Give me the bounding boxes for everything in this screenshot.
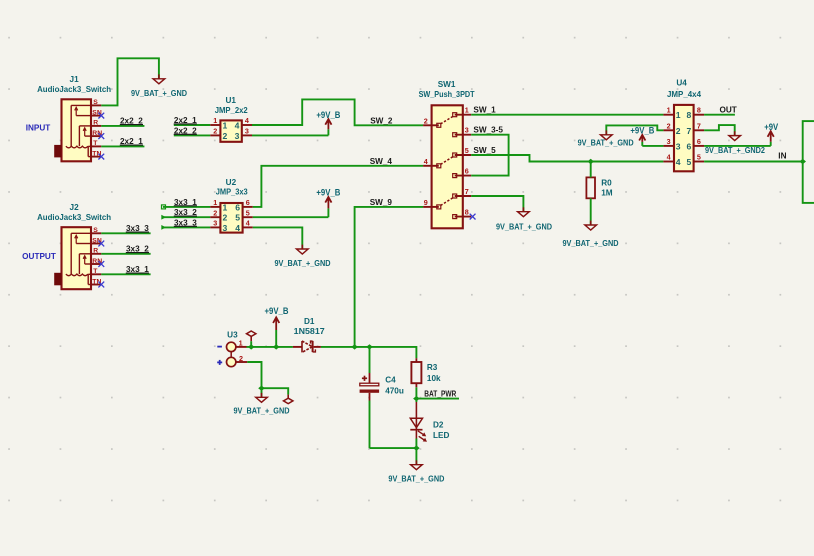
power +9V_B at U1 [316, 110, 340, 135]
no-connect J1 RN [98, 133, 104, 139]
svg-text:2: 2 [213, 208, 217, 217]
no-connect J2 TN [98, 282, 104, 288]
svg-text:R: R [93, 248, 98, 255]
wire ground node down [261, 388, 263, 397]
J2 reference label [70, 203, 80, 212]
no-connect J2 SN [98, 241, 104, 247]
svg-text:J2: J2 [70, 203, 80, 212]
svg-text:9V_BAT_+_GND: 9V_BAT_+_GND [275, 259, 331, 268]
svg-text:1: 1 [223, 121, 228, 131]
svg-text:1: 1 [213, 116, 217, 125]
svg-text:10k: 10k [427, 374, 441, 383]
label OUT [720, 105, 737, 114]
svg-text:SW_3-5: SW_3-5 [473, 126, 503, 135]
svg-text:6: 6 [235, 202, 240, 212]
svg-text:JMP_3x3: JMP_3x3 [216, 188, 248, 197]
svg-text:SW_4: SW_4 [370, 157, 393, 166]
jumper U2 JMP_3x3 [210, 198, 253, 233]
svg-text:3: 3 [223, 223, 228, 233]
wire SW_9 vertical from SW1 pin9 to D1 node [355, 207, 424, 347]
wire R0 top [590, 162, 592, 178]
wire U3 pin2 to ground node [247, 362, 261, 388]
junction at U3 pin1 [248, 344, 255, 349]
label SW_1 [473, 105, 496, 114]
svg-text:U2: U2 [226, 178, 237, 187]
svg-text:5: 5 [235, 213, 240, 223]
svg-text:+9V_B: +9V_B [265, 306, 289, 316]
capacitor C4 470u [360, 347, 380, 448]
connector J1 AudioJack3_Switch [54, 99, 102, 161]
svg-text:2: 2 [239, 354, 243, 363]
wire J1.S to ground [101, 58, 159, 105]
hierarchical sheet at right edge [803, 121, 814, 203]
svg-text:U4: U4 [676, 79, 687, 88]
label 3x3_3 at J2 [126, 224, 149, 233]
label SW_4 [370, 157, 393, 166]
flag diamond at U3 pin1 [247, 331, 256, 347]
U2 value JMP_3x3 [216, 188, 248, 197]
diode D1 1N5817 schottky [293, 341, 321, 353]
U3 reference label [227, 330, 238, 339]
svg-text:1N5817: 1N5817 [294, 327, 325, 336]
switch SW1 SW_Push_3PDT [423, 105, 471, 228]
wire LED bottom to ground [415, 448, 417, 465]
wire SW1 pin3 to pin6 net SW_3-5 [471, 135, 508, 176]
svg-text:9V_BAT_+_GND: 9V_BAT_+_GND [496, 222, 552, 231]
battery connector U3 [227, 339, 248, 367]
jumper U4 JMP_4x4 [663, 105, 704, 171]
wire SW1 pin5 to U4 pin4 net SW_5 [471, 155, 663, 162]
label SW_9 [370, 198, 393, 207]
LED D2 [410, 399, 427, 449]
J2 value AudioJack3_Switch [37, 213, 111, 222]
svg-text:BAT_PWR: BAT_PWR [424, 390, 456, 399]
svg-text:SW_Push_3PDT: SW_Push_3PDT [419, 90, 475, 99]
wire SW1 pin1 to U4 pin1 net SW_1 [471, 114, 663, 116]
svg-text:6: 6 [465, 167, 469, 176]
ground 9V_BAT_+_GND at U3 [234, 393, 290, 416]
svg-text:2: 2 [223, 213, 228, 223]
svg-text:J1: J1 [70, 75, 80, 84]
label 3x3_1 at J2 [126, 265, 149, 274]
svg-text:1: 1 [667, 106, 671, 115]
label 2x2_2 at U1 [174, 126, 197, 135]
svg-text:5: 5 [687, 157, 692, 167]
svg-text:S: S [93, 99, 98, 106]
wire J2.S net 3x3_3 [101, 232, 150, 234]
svg-text:6: 6 [687, 141, 692, 151]
svg-text:SW_2: SW_2 [370, 116, 393, 125]
svg-text:SW_9: SW_9 [370, 198, 393, 207]
U1 reference label [225, 96, 236, 105]
no-connect J1 SN [98, 113, 104, 119]
svg-text:3: 3 [667, 137, 671, 146]
svg-text:R3: R3 [427, 363, 438, 372]
label SW_3-5 [473, 126, 503, 135]
svg-text:IN: IN [778, 152, 786, 161]
OUTPUT text [22, 252, 56, 261]
D1 reference label [304, 317, 315, 326]
jumper U1 JMP_2x2 [210, 116, 252, 142]
wire U4 pin7 to ground [704, 125, 735, 136]
svg-text:9V_BAT_+_GND: 9V_BAT_+_GND [234, 406, 290, 415]
label SW_5 [473, 146, 496, 155]
svg-text:4: 4 [424, 157, 428, 166]
wire U4 pin5 net IN to sheet [704, 161, 803, 163]
svg-text:SW_5: SW_5 [473, 146, 496, 155]
wire U1 pin4 to SW1 pin2 net SW_2 [252, 99, 423, 125]
wire R3 bottom to BAT_PWR node [415, 387, 417, 398]
label 2x2_1 at J1 [120, 137, 143, 146]
svg-text:4: 4 [676, 157, 681, 167]
wire U4 pin3 to +9V_B [642, 145, 663, 147]
U4 value JMP_4x4 [667, 90, 701, 99]
svg-text:3: 3 [465, 126, 469, 135]
svg-text:5: 5 [697, 153, 701, 162]
no-connect J1 TN [98, 154, 104, 160]
wire U2 pin2 net 3x3_2 [161, 215, 210, 220]
junction at C4 branch [366, 344, 373, 349]
svg-text:8: 8 [697, 106, 701, 115]
svg-text:8: 8 [687, 110, 692, 120]
U2 reference label [226, 178, 237, 187]
wire U1 pin3 to +9V_B [252, 134, 328, 136]
svg-text:2: 2 [223, 131, 228, 141]
svg-text:OUTPUT: OUTPUT [22, 252, 56, 261]
C4 reference label [385, 376, 396, 385]
wire U4 pin8 net OUT [704, 114, 735, 116]
wire R0 bottom to ground [590, 198, 592, 225]
svg-text:INPUT: INPUT [26, 123, 51, 132]
svg-text:6: 6 [697, 137, 701, 146]
svg-text:D1: D1 [304, 317, 315, 326]
junction at sheet IN [799, 159, 806, 164]
svg-text:4: 4 [246, 219, 250, 228]
svg-text:1M: 1M [601, 188, 613, 197]
wire U1 pin2 net 2x2_2 [174, 134, 210, 136]
svg-text:2: 2 [676, 126, 681, 136]
svg-text:1: 1 [223, 202, 228, 212]
svg-text:JMP_4x4: JMP_4x4 [667, 90, 701, 99]
junction at U3 pin2 ground node [258, 386, 265, 391]
svg-text:SW_1: SW_1 [473, 105, 496, 114]
svg-text:1: 1 [465, 106, 469, 115]
U4 reference label [676, 79, 687, 88]
ground 9V_BAT_+_GND at U2 [275, 245, 331, 269]
J1 reference label [70, 75, 80, 84]
resistor R3 10k [411, 358, 441, 387]
svg-text:4: 4 [667, 153, 671, 162]
J1 value AudioJack3_Switch [37, 85, 111, 94]
svg-text:7: 7 [687, 126, 692, 136]
power +9V at U4 pin6 [764, 122, 778, 146]
svg-text:D2: D2 [433, 421, 444, 430]
no-connect SW1 pin8 [470, 214, 476, 220]
svg-text:9V_BAT_+_GND: 9V_BAT_+_GND [578, 138, 634, 147]
wire U4 pin6 to +9V [704, 145, 771, 147]
svg-text:7: 7 [465, 187, 469, 196]
svg-text:TN: TN [92, 278, 101, 285]
junction at BAT_PWR [413, 396, 420, 401]
svg-text:4: 4 [235, 223, 240, 233]
svg-text:+9V_B: +9V_B [316, 110, 340, 120]
INPUT text [26, 123, 51, 132]
svg-text:2: 2 [213, 127, 217, 136]
svg-text:1: 1 [676, 110, 681, 120]
U1 value JMP_2x2 [215, 106, 248, 115]
wire U2 pin1 net 3x3_1 [162, 205, 211, 209]
svg-text:9V_BAT_+_GND: 9V_BAT_+_GND [131, 89, 187, 98]
svg-text:9V_BAT_+_GND: 9V_BAT_+_GND [563, 239, 619, 248]
svg-text:+9V_B: +9V_B [630, 125, 654, 135]
svg-text:8: 8 [465, 208, 469, 217]
label 3x3_2 at U2 [174, 208, 197, 217]
wire BAT_PWR stub [416, 398, 459, 400]
D2 value LED [433, 431, 449, 440]
svg-text:1: 1 [239, 339, 243, 348]
svg-text:+9V_B: +9V_B [316, 188, 340, 198]
wire J1.T net 2x2_1 [101, 145, 144, 147]
wire main battery rail [247, 346, 293, 348]
svg-text:9: 9 [424, 198, 428, 207]
svg-text:6: 6 [246, 198, 250, 207]
ground 9V_BAT_+_GND at R0 [563, 221, 619, 249]
svg-text:9V_BAT_+_GND2: 9V_BAT_+_GND2 [705, 146, 765, 155]
ground 9V_BAT_+_GND at SW1 pin7 [496, 207, 552, 231]
svg-text:C4: C4 [385, 376, 396, 385]
junction at SW_9 drop [351, 344, 358, 349]
svg-text:3: 3 [213, 219, 217, 228]
power +9V_B at U2 [316, 188, 340, 218]
no-connect J2 RN [98, 261, 104, 267]
svg-text:JMP_2x2: JMP_2x2 [215, 106, 248, 115]
wire U2 pin4 to ground [253, 227, 302, 249]
svg-text:TN: TN [92, 150, 101, 157]
label 3x3_1 at U2 [174, 198, 197, 207]
svg-text:+9V: +9V [764, 122, 778, 132]
svg-text:U1: U1 [225, 96, 236, 105]
svg-text:2: 2 [424, 116, 428, 125]
svg-text:7: 7 [697, 121, 701, 130]
svg-text:2: 2 [667, 121, 671, 130]
wire ground node to flag diamond [262, 388, 289, 394]
label BAT_PWR [424, 390, 456, 399]
svg-text:AudioJack3_Switch: AudioJack3_Switch [37, 85, 111, 94]
svg-text:9V_BAT_+_GND: 9V_BAT_+_GND [388, 475, 444, 484]
wire U1 pin1 net 2x2_1 [174, 124, 210, 126]
svg-text:4: 4 [245, 116, 249, 125]
connector J2 AudioJack3_Switch [54, 227, 102, 289]
svg-text:5: 5 [246, 208, 250, 217]
label 2x2_1 at U1 [174, 116, 197, 125]
wire U2 pin6 to SW1 pin4 net SW_4 [253, 166, 423, 207]
junction at +9V_B drop [273, 344, 280, 349]
svg-text:3: 3 [676, 141, 681, 151]
power +9V_B at battery rail [265, 306, 289, 347]
SW1 reference label [438, 80, 456, 89]
resistor R0 1M [586, 177, 612, 198]
svg-text:470u: 470u [385, 387, 404, 396]
D2 reference label [433, 421, 444, 430]
svg-text:LED: LED [433, 431, 449, 440]
D1 value 1N5817 [294, 327, 325, 336]
wire SW1 pin7 to ground [471, 196, 523, 212]
U3 plus sign [217, 360, 222, 365]
svg-text:4: 4 [235, 121, 240, 131]
label 2x2_2 at J1 [120, 117, 143, 126]
C4 value 470u [385, 387, 404, 396]
ground 9V_BAT_+_GND at LED [388, 460, 444, 483]
flag diamond at U3 pin2 net [284, 398, 293, 403]
svg-text:1: 1 [213, 198, 217, 207]
svg-text:R: R [93, 120, 98, 127]
svg-text:5: 5 [465, 146, 469, 155]
wire U2 pin3 net 3x3_3 [161, 225, 210, 230]
junction at R0 top [587, 159, 594, 164]
ground 9V_BAT_+_GND2 at U4 pin7 [705, 131, 765, 155]
svg-text:3: 3 [235, 131, 240, 141]
U3 minus sign [217, 346, 222, 348]
ground 9V_BAT_+_GND at U4 pin2 [578, 130, 634, 147]
wire D1 to corner at R3 [321, 347, 417, 358]
svg-text:3: 3 [245, 127, 249, 136]
label 3x3_2 at J2 [126, 245, 149, 254]
svg-text:SW1: SW1 [438, 80, 456, 89]
svg-text:R0: R0 [601, 178, 612, 187]
junction at LED bottom [413, 445, 420, 450]
power +9V_B at U4 [630, 125, 654, 146]
SW1 value SW_Push_3PDT [419, 90, 475, 99]
label 3x3_3 at U2 [174, 218, 197, 227]
svg-text:U3: U3 [227, 330, 238, 339]
label IN [778, 152, 786, 161]
wire U4 pin2 to ground [606, 125, 663, 134]
ground 9V_BAT_+_GND at J1 [131, 74, 187, 98]
svg-text:S: S [93, 227, 98, 234]
wire J2.T net 3x3_1 [101, 273, 150, 275]
label SW_2 [370, 116, 393, 125]
wire J1.R net 2x2_2 [101, 125, 144, 127]
wire C4 bottom to LED bottom [370, 447, 417, 449]
svg-text:AudioJack3_Switch: AudioJack3_Switch [37, 213, 111, 222]
svg-text:OUT: OUT [720, 105, 737, 114]
wire U2 pin5 to +9V_B [253, 216, 329, 218]
wire J2.R net 3x3_2 [101, 253, 150, 255]
